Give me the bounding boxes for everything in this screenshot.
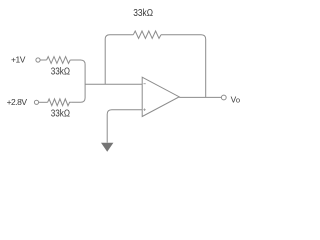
- wire: +1V terminal to resistor: [40, 59, 46, 61]
- ground symbol: [101, 143, 113, 152]
- terminal +1V circle: [36, 58, 40, 62]
- terminal +2.8V circle: [34, 100, 38, 104]
- svg-text:33kΩ: 33kΩ: [133, 7, 153, 18]
- wire: +2.8V terminal to resistor: [39, 101, 48, 103]
- svg-text:+2.8V: +2.8V: [7, 97, 28, 107]
- wire: non-inverting input to ground: [107, 110, 142, 143]
- op-amp plus mark: [143, 109, 145, 111]
- svg-text:33kΩ: 33kΩ: [51, 108, 70, 119]
- wire: op-amp output: [179, 96, 221, 98]
- resistor R2 33k zigzag (+2.8V input): [48, 99, 72, 106]
- op-amp U1 triangle: [142, 77, 179, 116]
- wire: bracket joining R1 and R2 to summing node: [70, 60, 85, 102]
- resistor Rf 33k zigzag (feedback): [133, 31, 161, 38]
- wire: feedback left vertical + top-left corner: [105, 35, 133, 84]
- op-amp minus mark: [144, 83, 146, 85]
- wire: summing node to inverting input: [85, 83, 142, 85]
- svg-text:Vo: Vo: [231, 94, 240, 104]
- svg-text:33kΩ: 33kΩ: [51, 66, 70, 77]
- wire: feedback top-right + right vertical down to output: [161, 35, 206, 98]
- terminal Vo circle: [221, 95, 226, 100]
- svg-text:+1V: +1V: [11, 55, 26, 65]
- resistor R1 33k zigzag (+1V input): [47, 57, 71, 64]
